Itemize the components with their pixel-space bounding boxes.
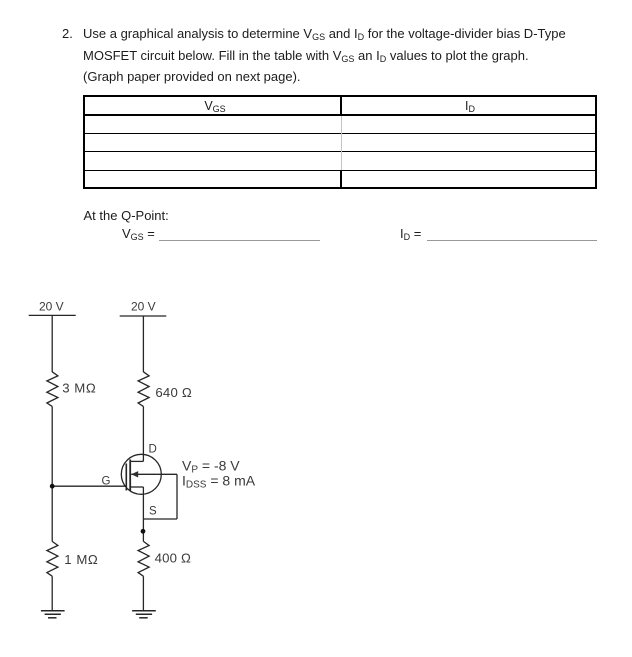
- mosfet Q1 drain bar: [130, 460, 143, 462]
- wire R2 to ground: [51, 576, 53, 610]
- outer border: [83, 95, 597, 97]
- gate wire: [52, 485, 126, 487]
- svg-text:S: S: [149, 505, 157, 517]
- wire left rail to R1: [51, 316, 53, 372]
- supply rail left 20V: [29, 314, 76, 316]
- resistor R3 640: [138, 372, 149, 407]
- header labels: [86, 99, 344, 114]
- svg-text:D: D: [149, 444, 157, 456]
- mosfet Q1 gate bar: [125, 464, 127, 491]
- supply rail right 20V: [120, 315, 167, 317]
- svg-text:20 V: 20 V: [131, 300, 156, 314]
- wire R3 to drain: [142, 406, 144, 461]
- row lines: [83, 133, 597, 134]
- svg-text:640 Ω: 640 Ω: [155, 385, 192, 400]
- mosfet Q1 arrow: [131, 471, 138, 477]
- mosfet Q1 channel bar: [129, 460, 131, 492]
- source node dot: [141, 529, 146, 534]
- ground symbol left: [41, 610, 65, 612]
- source wire: [142, 487, 144, 541]
- resistor R4 400: [138, 541, 149, 576]
- resistor R1 3M: [47, 372, 58, 407]
- vertical divider: [340, 95, 342, 116]
- Q-point section: [84, 207, 169, 225]
- mosfet Q1 source bar: [130, 486, 143, 488]
- svg-text:3 MΩ: 3 MΩ: [62, 381, 96, 396]
- ground symbol right: [132, 610, 156, 612]
- resistor R2 1M: [47, 541, 58, 576]
- wire R1 to gate node: [51, 406, 53, 486]
- svg-text:G: G: [102, 475, 111, 487]
- question text: [62, 25, 73, 43]
- gate node dot: [50, 484, 55, 489]
- svg-text:400 Ω: 400 Ω: [155, 550, 192, 565]
- body-source loop horizontal: [143, 518, 177, 520]
- body-source loop vertical: [176, 474, 178, 519]
- svg-text:20 V: 20 V: [39, 300, 64, 314]
- wire R4 to ground: [142, 576, 144, 610]
- wire gate node to R2: [51, 486, 53, 541]
- header separator: [83, 114, 597, 116]
- mosfet Q1 body lead: [131, 473, 177, 475]
- mosfet Q1 body circle: [121, 454, 161, 494]
- svg-text:1 MΩ: 1 MΩ: [64, 552, 98, 567]
- wire right rail to R3: [142, 316, 144, 372]
- table: [83, 95, 597, 188]
